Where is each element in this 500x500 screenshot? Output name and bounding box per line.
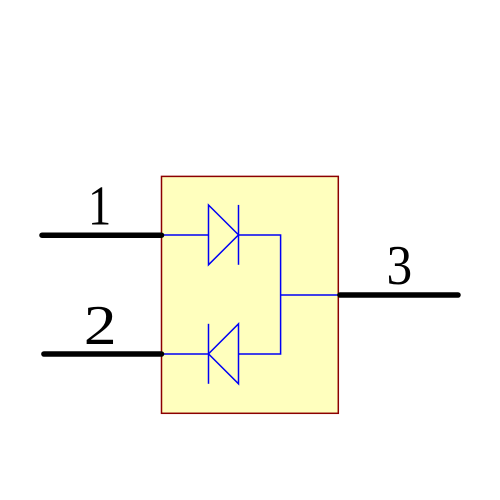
diode D1 triangle (anode left) [209, 205, 239, 265]
pin 2 wire [44, 351, 162, 357]
component body U1 (yellow box) [162, 176, 339, 413]
svg-text:1: 1 [88, 176, 111, 238]
wire: D2 cathode stub to pin2 [162, 353, 209, 355]
diode D1 cathode bar [238, 205, 240, 265]
diode D2 cathode bar [208, 324, 210, 384]
diode D2 triangle (anode right, pointing left) [209, 324, 239, 384]
pin 3 wire [340, 292, 458, 298]
wire: D1 cathode to corner [239, 235, 281, 295]
pin 1 wire [42, 232, 162, 238]
wire: junction down to D2 [239, 295, 281, 354]
svg-text:2: 2 [84, 295, 117, 357]
svg-text:3: 3 [387, 235, 413, 297]
wire: pin1 stub into box [162, 234, 209, 236]
wire: junction to pin 3 [281, 294, 338, 296]
